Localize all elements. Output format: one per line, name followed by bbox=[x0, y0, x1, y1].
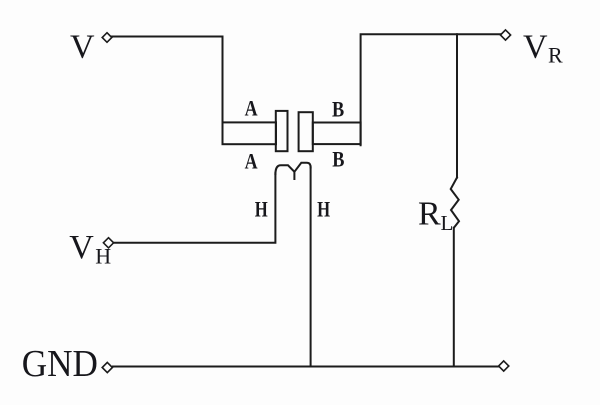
wire: V terminal to sensor electrode A (top-left rail and drop) bbox=[112, 37, 223, 145]
svg-text:B: B bbox=[332, 97, 344, 122]
svg-text:A: A bbox=[245, 96, 258, 121]
svg-text:V: V bbox=[69, 229, 94, 266]
svg-text:A: A bbox=[245, 149, 258, 174]
wire: heater left lead to VH terminal bbox=[114, 173, 276, 243]
svg-text:H: H bbox=[317, 197, 330, 222]
terminal diamond GND right bbox=[499, 361, 509, 371]
electrode bar B-B bbox=[313, 123, 361, 145]
terminal diamond VR bbox=[500, 30, 510, 40]
resistor RL zigzag bbox=[451, 178, 459, 228]
svg-text:R: R bbox=[418, 195, 441, 232]
ground rail wire bbox=[113, 366, 498, 368]
terminal diamond GND left bbox=[102, 362, 112, 372]
wire: heater right lead down to ground rail bbox=[310, 167, 312, 367]
wire: junction down to load resistor RL bbox=[456, 34, 458, 177]
sensor plate right bbox=[299, 112, 313, 151]
wire: RL bottom to ground rail bbox=[453, 228, 455, 367]
svg-text:H: H bbox=[255, 197, 268, 222]
svg-text:GND: GND bbox=[22, 342, 98, 385]
svg-text:V: V bbox=[70, 29, 95, 66]
svg-text:V: V bbox=[523, 28, 548, 65]
sensor plate left bbox=[276, 111, 288, 151]
svg-text:H: H bbox=[95, 243, 111, 268]
terminal diamond V bbox=[102, 33, 112, 43]
svg-text:B: B bbox=[332, 147, 344, 172]
svg-text:R: R bbox=[548, 42, 563, 67]
terminal diamond VH bbox=[103, 238, 113, 248]
heater coil squiggle bbox=[275, 163, 310, 179]
wire: electrode B up and along top rail to VR terminal bbox=[361, 34, 501, 145]
electrode bar A-A bbox=[223, 122, 277, 144]
svg-text:L: L bbox=[441, 211, 454, 235]
